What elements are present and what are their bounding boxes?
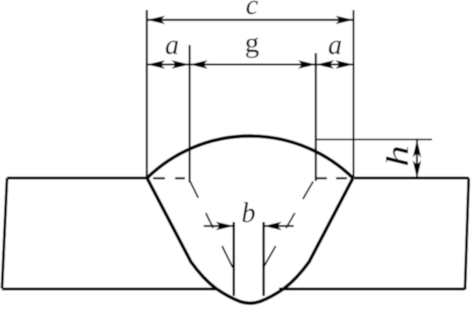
svg-text:g: g	[245, 27, 260, 59]
svg-text:h: h	[380, 145, 415, 167]
svg-text:c: c	[246, 0, 259, 21]
svg-text:a: a	[328, 30, 342, 61]
svg-text:a: a	[165, 30, 179, 61]
svg-text:b: b	[242, 198, 256, 229]
